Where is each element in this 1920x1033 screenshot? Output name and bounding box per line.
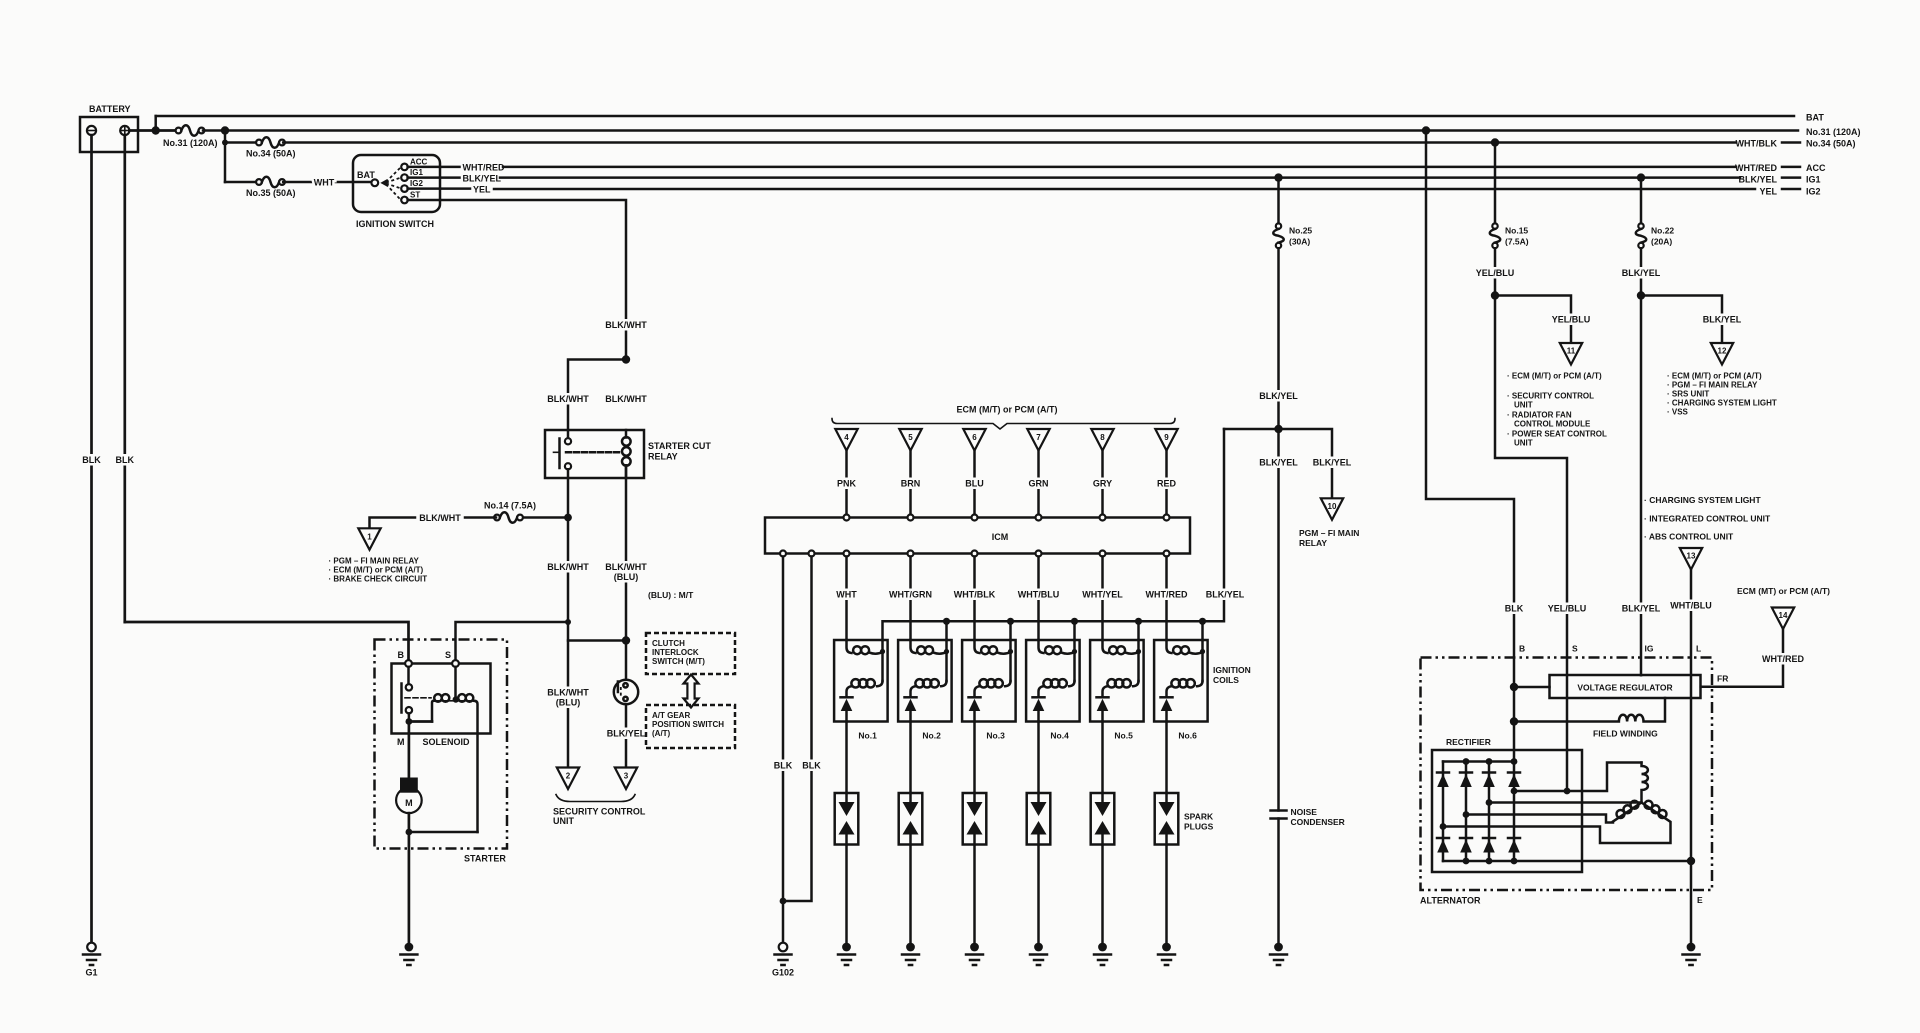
svg-text:· INTEGRATED CONTROL UNIT: · INTEGRATED CONTROL UNIT (1644, 514, 1771, 524)
svg-text:B: B (1519, 644, 1525, 654)
svg-text:SPARK: SPARK (1184, 812, 1214, 822)
ignition switch contact ST (401, 197, 408, 204)
svg-text:No.2: No.2 (922, 731, 941, 741)
wire branch to coils and PGM-FI relay (1224, 429, 1332, 498)
svg-text:STARTER: STARTER (464, 854, 506, 864)
wire BLK/YEL to IG terminal (1640, 248, 1643, 675)
node No.25 tap (1274, 173, 1282, 181)
svg-text:COILS: COILS (1213, 675, 1239, 685)
wire WHT to coil No.1 (845, 557, 848, 641)
svg-text:12: 12 (1718, 347, 1727, 356)
svg-text:BLK/YEL: BLK/YEL (1206, 590, 1245, 600)
terminal S (452, 660, 459, 667)
ignition switch (353, 155, 440, 212)
svg-text:(BLU): (BLU) (556, 698, 581, 708)
svg-text:· POWER SEAT CONTROL: · POWER SEAT CONTROL (1507, 430, 1607, 439)
ignition coil No.3 (962, 640, 1016, 722)
svg-text:BLK: BLK (774, 761, 793, 771)
svg-text:BLK/YEL: BLK/YEL (1622, 268, 1661, 278)
stator right coil (1642, 803, 1671, 822)
svg-text:WHT/GRN: WHT/GRN (889, 590, 932, 600)
svg-text:BLK/WHT: BLK/WHT (605, 320, 647, 330)
connector triangle 2 (557, 768, 579, 790)
fuse No.25 (30A) (1277, 178, 1280, 224)
svg-text:· ECM (M/T) or PCM (A/T): · ECM (M/T) or PCM (A/T) (1667, 372, 1762, 381)
svg-text:A/T GEAR: A/T GEAR (652, 711, 690, 720)
wire relay contact output BLK/WHT (567, 469, 570, 767)
wire WHT/BLU L and E line (1690, 570, 1693, 944)
wire BLK/YEL rail to ignition coils (883, 429, 1225, 640)
svg-text:ST: ST (410, 191, 420, 200)
svg-text:(20A): (20A) (1651, 237, 1672, 247)
svg-text:No.25: No.25 (1289, 226, 1312, 236)
svg-text:ECM (M/T) or PCM (A/T): ECM (M/T) or PCM (A/T) (957, 405, 1058, 415)
svg-text:BRN: BRN (901, 479, 921, 489)
terminal B (405, 660, 412, 667)
svg-text:PLUGS: PLUGS (1184, 822, 1214, 832)
svg-text:· RADIATOR FAN: · RADIATOR FAN (1507, 411, 1572, 420)
stator phase tap 1 (1514, 763, 1642, 792)
voltage regulator (1550, 675, 1701, 698)
wire PNK (845, 451, 848, 515)
svg-text:No.34 (50A): No.34 (50A) (246, 149, 296, 159)
node fuse No.14 junction (564, 514, 572, 522)
ground alternator E (1683, 943, 1700, 965)
wire IG1 bus BLK/YEL (440, 176, 460, 179)
svg-text:BLK/WHT: BLK/WHT (605, 562, 647, 572)
svg-text:BLK/WHT: BLK/WHT (419, 513, 461, 523)
svg-text:WHT/RED: WHT/RED (463, 163, 505, 173)
svg-text:WHT/BLU: WHT/BLU (1018, 590, 1060, 600)
wire BLK to B terminal (1426, 131, 1514, 862)
wire ICM ground BLK left (782, 557, 785, 944)
spark plug 2 (899, 793, 923, 845)
svg-text:NOISE: NOISE (1291, 807, 1318, 817)
svg-text:WHT: WHT (314, 178, 335, 188)
svg-text:BAT: BAT (1806, 113, 1824, 123)
svg-text:ACC: ACC (1806, 163, 1826, 173)
wire fuse riser (224, 131, 227, 183)
svg-text:BLK: BLK (1505, 604, 1524, 614)
svg-text:· BRAKE CHECK CIRCUIT: · BRAKE CHECK CIRCUIT (329, 575, 428, 584)
svg-text:YEL: YEL (1759, 187, 1777, 197)
svg-text:RELAY: RELAY (1299, 538, 1327, 548)
svg-text:BLK: BLK (82, 455, 101, 465)
svg-text:No.14 (7.5A): No.14 (7.5A) (484, 501, 536, 511)
fuse No.31 (120A) (176, 125, 205, 136)
wire GRN (1037, 451, 1040, 515)
wire battery positive to starter B (125, 622, 409, 662)
connector triangle 10 (1321, 498, 1343, 520)
svg-text:No.34 (50A): No.34 (50A) (1806, 139, 1856, 149)
svg-text:· CHARGING SYSTEM LIGHT: · CHARGING SYSTEM LIGHT (1667, 399, 1777, 408)
svg-text:WHT/BLK: WHT/BLK (954, 590, 996, 600)
svg-text:4: 4 (844, 433, 849, 442)
svg-text:IG1: IG1 (410, 168, 423, 177)
svg-text:CONTROL MODULE: CONTROL MODULE (1514, 420, 1591, 429)
svg-text:14: 14 (1779, 611, 1788, 620)
connector triangle 3 (615, 768, 637, 790)
wire branch to S terminal (456, 622, 569, 662)
svg-text:WHT/BLU: WHT/BLU (1670, 601, 1712, 611)
svg-text:· PGM – FI MAIN RELAY: · PGM – FI MAIN RELAY (1667, 381, 1758, 390)
fuse No.35 (50A) (225, 181, 258, 184)
solenoid contact (407, 667, 410, 684)
svg-text:M: M (397, 737, 405, 747)
svg-text:BLK/YEL: BLK/YEL (1622, 604, 1661, 614)
spark plug 1 (835, 793, 859, 845)
svg-text:BLK/YEL: BLK/YEL (1703, 315, 1742, 325)
svg-text:UNIT: UNIT (1514, 401, 1533, 410)
svg-text:BLK/YEL: BLK/YEL (1259, 391, 1298, 401)
wire WHT/BLU (1037, 557, 1040, 641)
wire YEL/BLU to S terminal (1495, 248, 1567, 791)
wire GRY (1101, 451, 1104, 515)
rectifier top bus (1443, 760, 1514, 763)
svg-text:YEL/BLU: YEL/BLU (1548, 604, 1587, 614)
svg-text:WHT/YEL: WHT/YEL (1082, 590, 1123, 600)
svg-text:CONDENSER: CONDENSER (1291, 817, 1345, 827)
svg-text:SOLENOID: SOLENOID (423, 737, 471, 747)
svg-text:VOLTAGE REGULATOR: VOLTAGE REGULATOR (1577, 683, 1672, 693)
clutch interlock switch (614, 680, 638, 704)
svg-text:BLK/WHT: BLK/WHT (547, 394, 589, 404)
svg-text:· ECM (M/T) or PCM (A/T): · ECM (M/T) or PCM (A/T) (1507, 372, 1602, 381)
wire WHT/RED FR (1701, 629, 1783, 687)
ground G1 (83, 943, 100, 965)
spark plug 6 (1155, 793, 1179, 845)
node ST branch (622, 355, 630, 363)
svg-text:GRY: GRY (1093, 479, 1112, 489)
svg-text:No.22: No.22 (1651, 226, 1674, 236)
svg-text:FR: FR (1717, 674, 1728, 684)
wire BLK/YEL to noise condenser (1277, 248, 1280, 810)
svg-text:WHT/BLK: WHT/BLK (1736, 139, 1778, 149)
svg-text:2: 2 (566, 772, 571, 781)
svg-text:S: S (445, 650, 451, 660)
noise condenser (1271, 809, 1287, 812)
rectifier columns (1442, 762, 1445, 862)
svg-text:YEL/BLU: YEL/BLU (1552, 315, 1591, 325)
svg-text:5: 5 (908, 433, 913, 442)
ignition coil No.4 (1026, 640, 1080, 722)
svg-text:PNK: PNK (837, 479, 857, 489)
svg-text:RELAY: RELAY (648, 452, 678, 462)
wire switch to triangle 3 BLK/YEL (625, 704, 628, 767)
wire ICM ground BLK right (783, 557, 812, 902)
svg-text:6: 6 (972, 433, 977, 442)
spark plug grounds (845, 845, 848, 943)
wire branch to triangle 12 (1641, 296, 1722, 344)
fuse No.22 (20A) (1640, 178, 1643, 224)
svg-text:ACC: ACC (410, 158, 428, 167)
svg-text:RED: RED (1157, 479, 1177, 489)
rectifier diodes bottom row (1437, 838, 1449, 853)
starter cut relay (545, 430, 644, 478)
solenoid windings (409, 720, 432, 723)
svg-text:No.5: No.5 (1114, 731, 1133, 741)
alternator dashed box (1421, 658, 1713, 891)
fuse No.15 (7.5A) (1494, 143, 1497, 224)
ignition switch contact IG2 (401, 185, 408, 192)
svg-text:G102: G102 (772, 968, 794, 978)
svg-text:BLK/WHT: BLK/WHT (605, 394, 647, 404)
connector triangle 13 (1680, 548, 1702, 570)
wire branch to triangle 11 (1495, 296, 1571, 344)
svg-text:(BLU) : M/T: (BLU) : M/T (648, 590, 694, 600)
svg-text:BLK/YEL: BLK/YEL (1313, 458, 1352, 468)
svg-text:BLK: BLK (802, 761, 821, 771)
svg-text:RECTIFIER: RECTIFIER (1446, 737, 1491, 747)
connector triangle 7 (1027, 429, 1049, 451)
svg-text:FIELD WINDING: FIELD WINDING (1593, 729, 1658, 739)
svg-text:· ECM (M/T) or PCM (A/T): · ECM (M/T) or PCM (A/T) (329, 566, 424, 575)
svg-text:B: B (398, 650, 405, 660)
ground G102 (775, 943, 792, 965)
ground noise condenser (1270, 943, 1287, 965)
svg-text:E: E (1697, 895, 1703, 905)
ignition coil No.1 (834, 640, 888, 722)
connector triangle 11 (1560, 343, 1582, 365)
ICM box (765, 518, 1190, 554)
wire WHT/GRN (909, 557, 912, 641)
svg-text:10: 10 (1328, 502, 1337, 511)
stator phase tap 2 (1466, 815, 1613, 823)
svg-text:No.15: No.15 (1505, 226, 1528, 236)
wire branch to interlock line (568, 639, 626, 642)
svg-text:BLK/YEL: BLK/YEL (463, 174, 502, 184)
wires coils to spark plugs (845, 722, 848, 794)
wire battery positive feed (129, 129, 176, 132)
wire B to regulator (1514, 686, 1550, 689)
svg-text:BLK/YEL: BLK/YEL (607, 729, 646, 739)
rectifier box (1432, 750, 1582, 872)
stator top coil (1642, 763, 1648, 803)
ground starter (400, 943, 417, 965)
svg-text:BLK: BLK (116, 455, 135, 465)
svg-text:· SECURITY CONTROL: · SECURITY CONTROL (1507, 392, 1594, 401)
svg-text:SECURITY CONTROL: SECURITY CONTROL (553, 807, 646, 817)
solenoid box (392, 664, 491, 734)
wire BLU (973, 451, 976, 515)
svg-text:IGNITION SWITCH: IGNITION SWITCH (356, 219, 434, 229)
field winding (1514, 698, 1665, 722)
svg-text:IG2: IG2 (1806, 187, 1821, 197)
wire WHT to ignition switch (283, 181, 371, 184)
wire ST to starter cut relay BLK/WHT (440, 200, 626, 360)
svg-text:No.1: No.1 (858, 731, 877, 741)
brace security control unit (556, 795, 635, 802)
wire battery negative to G1 (90, 135, 93, 943)
svg-text:YEL: YEL (473, 185, 491, 195)
svg-text:INTERLOCK: INTERLOCK (652, 648, 699, 657)
svg-text:· VSS: · VSS (1667, 408, 1689, 417)
svg-text:BAT: BAT (357, 170, 375, 180)
svg-text:STARTER CUT: STARTER CUT (648, 441, 711, 451)
svg-text:· ABS CONTROL UNIT: · ABS CONTROL UNIT (1644, 532, 1734, 542)
spark plug 3 (963, 793, 987, 845)
bracket (832, 419, 1175, 430)
svg-text:BLK/WHT: BLK/WHT (547, 562, 589, 572)
svg-text:UNIT: UNIT (1514, 439, 1533, 448)
svg-text:ICM: ICM (992, 532, 1009, 542)
connector triangle 4 (835, 429, 857, 451)
svg-text:GRN: GRN (1029, 479, 1049, 489)
stator phase tap 3 (1443, 823, 1671, 844)
svg-text:(A/T): (A/T) (652, 729, 671, 738)
svg-text:G1: G1 (85, 968, 97, 978)
node BAT riser (154, 116, 157, 131)
wire No.31 bus (203, 129, 1798, 132)
ignition coil No.2 (898, 640, 952, 722)
svg-text:PGM – FI MAIN: PGM – FI MAIN (1299, 528, 1359, 538)
connector triangle 5 (899, 429, 921, 451)
svg-text:BLK/YEL: BLK/YEL (1259, 458, 1298, 468)
svg-text:BLK/WHT: BLK/WHT (547, 688, 589, 698)
wire starter ground (408, 832, 411, 943)
ignition switch contact ACC (401, 164, 408, 171)
wire RED (1165, 451, 1168, 515)
double arrow symbol (684, 675, 699, 708)
svg-text:ECM (MT) or PCM (A/T): ECM (MT) or PCM (A/T) (1737, 586, 1830, 596)
svg-text:L: L (1696, 644, 1701, 654)
wire WHT/YEL (1101, 557, 1104, 641)
wire BRN (909, 451, 912, 515)
battery negative terminal (87, 126, 96, 135)
svg-text:UNIT: UNIT (553, 816, 574, 826)
svg-text:No.4: No.4 (1050, 731, 1069, 741)
ignition switch contact IG1 (401, 174, 408, 181)
stator neutral tap (1489, 801, 1642, 804)
svg-text:WHT/RED: WHT/RED (1762, 654, 1804, 664)
wire ACC bus WHT/RED (440, 166, 460, 169)
svg-text:8: 8 (1100, 433, 1105, 442)
wire WHT/RED (1165, 557, 1168, 641)
svg-text:BATTERY: BATTERY (89, 104, 131, 114)
svg-text:1: 1 (367, 533, 372, 542)
svg-text:No.31 (120A): No.31 (120A) (163, 138, 218, 148)
clutch interlock switch (M/T) box (646, 633, 735, 674)
svg-text:· PGM – FI MAIN RELAY: · PGM – FI MAIN RELAY (329, 557, 420, 566)
A/T gear position switch (A/T) box (646, 705, 735, 748)
svg-text:(7.5A): (7.5A) (1505, 237, 1529, 247)
rectifier bottom bus (1443, 860, 1691, 863)
wire relay coil to interlock switch BLK/WHT (BLU) (625, 468, 628, 680)
node No.15 tap (1491, 138, 1499, 146)
svg-text:CLUTCH: CLUTCH (652, 639, 685, 648)
node No.22 tap (1637, 173, 1645, 181)
svg-text:ALTERNATOR: ALTERNATOR (1420, 896, 1481, 906)
connector triangle 6 (963, 429, 985, 451)
rail legs (945, 621, 948, 640)
wire WHT/BLK bus (283, 141, 1736, 144)
svg-text:No.6: No.6 (1178, 731, 1197, 741)
svg-text:13: 13 (1687, 552, 1696, 561)
svg-text:IG: IG (1645, 644, 1654, 654)
svg-text:· CHARGING SYSTEM LIGHT: · CHARGING SYSTEM LIGHT (1644, 495, 1761, 505)
svg-text:11: 11 (1567, 347, 1576, 356)
connector triangle 1 (358, 528, 380, 550)
fuse No.14 (7.5A) (521, 516, 568, 519)
connector triangle 9 (1155, 429, 1177, 451)
connector triangle 8 (1091, 429, 1113, 451)
svg-text:9: 9 (1164, 433, 1169, 442)
svg-text:No.31 (120A): No.31 (120A) (1806, 127, 1861, 137)
svg-text:3: 3 (624, 772, 629, 781)
wire M to motor (408, 722, 411, 778)
svg-text:M: M (405, 798, 413, 808)
svg-text:WHT/RED: WHT/RED (1735, 163, 1777, 173)
battery positive terminal (120, 126, 129, 135)
svg-text:BLU: BLU (965, 479, 984, 489)
svg-text:IG2: IG2 (410, 179, 423, 188)
svg-text:· SRS UNIT: · SRS UNIT (1667, 390, 1709, 399)
svg-text:S: S (1572, 644, 1578, 654)
ignition coil No.6 (1154, 640, 1208, 722)
svg-text:No.35 (50A): No.35 (50A) (246, 188, 296, 198)
svg-text:SWITCH (M/T): SWITCH (M/T) (652, 657, 705, 666)
starter dashed box (375, 640, 508, 849)
svg-text:YEL/BLU: YEL/BLU (1476, 268, 1515, 278)
svg-text:7: 7 (1036, 433, 1041, 442)
starter motor (396, 788, 422, 814)
svg-text:WHT/RED: WHT/RED (1146, 590, 1188, 600)
connector triangle 12 (1711, 343, 1733, 365)
svg-text:(BLU): (BLU) (614, 572, 639, 582)
stator left coil (1613, 803, 1642, 822)
spark plug 5 (1091, 793, 1115, 845)
svg-text:WHT: WHT (836, 590, 857, 600)
svg-text:IGNITION: IGNITION (1213, 665, 1251, 675)
spark plug 4 (1027, 793, 1051, 845)
wire BAT bus (156, 115, 1794, 118)
svg-text:POSITION SWITCH: POSITION SWITCH (652, 720, 724, 729)
rectifier diodes top row (1437, 773, 1449, 788)
svg-text:No.3: No.3 (986, 731, 1005, 741)
svg-text:(30A): (30A) (1289, 237, 1310, 247)
ignition coil No.5 (1090, 640, 1144, 722)
fuse No.34 (50A) (225, 141, 258, 144)
wire IG2 bus YEL (440, 187, 470, 190)
wire WHT/BLK (973, 557, 976, 641)
svg-text:BLK/YEL: BLK/YEL (1738, 175, 1777, 185)
svg-text:IG1: IG1 (1806, 175, 1821, 185)
